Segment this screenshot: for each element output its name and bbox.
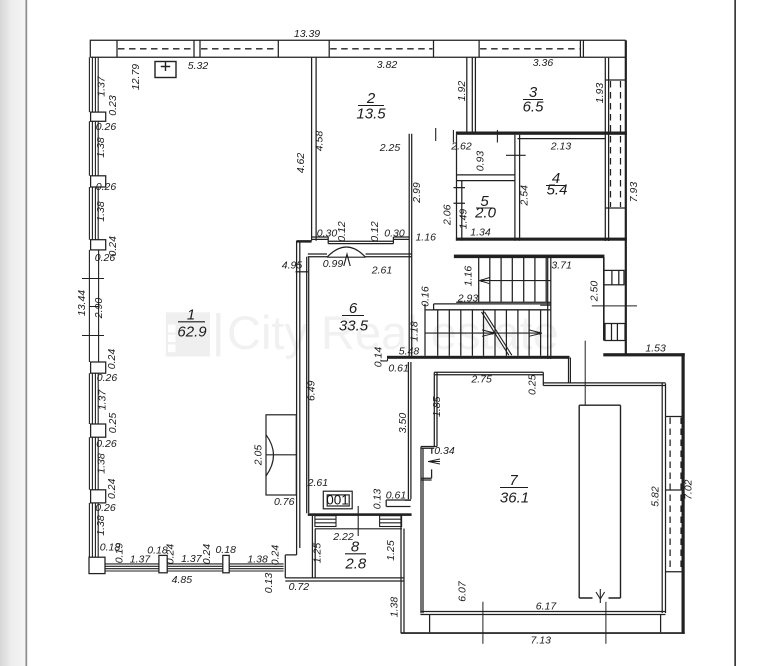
svg-text:6.17: 6.17 [536,601,558,613]
svg-text:6: 6 [349,300,358,317]
svg-text:1.38: 1.38 [95,201,107,222]
svg-text:0.26: 0.26 [95,252,116,264]
svg-text:3.50: 3.50 [397,413,409,434]
svg-text:2.62: 2.62 [450,141,472,153]
svg-text:1.16: 1.16 [463,266,475,287]
svg-text:0.12: 0.12 [369,221,381,242]
svg-text:0.18: 0.18 [215,544,236,556]
svg-text:1.37: 1.37 [96,75,108,97]
svg-text:1.38: 1.38 [95,137,107,158]
svg-text:2.90: 2.90 [93,298,105,320]
svg-text:0.25: 0.25 [107,413,119,434]
svg-text:1: 1 [187,307,195,324]
svg-text:2.93: 2.93 [457,293,479,305]
svg-text:0.25: 0.25 [527,374,539,395]
svg-text:5.32: 5.32 [188,60,209,72]
svg-text:1.25: 1.25 [385,540,397,561]
svg-text:33.5: 33.5 [339,318,369,335]
svg-text:2.50: 2.50 [589,281,601,303]
svg-text:2.13: 2.13 [550,141,572,153]
svg-text:0.26: 0.26 [95,502,116,514]
svg-text:0.13: 0.13 [263,573,275,594]
svg-text:13.44: 13.44 [76,290,88,316]
svg-text:13.5: 13.5 [356,106,386,123]
svg-text:3.36: 3.36 [533,57,554,69]
svg-text:4.62: 4.62 [295,153,307,174]
svg-text:1.38: 1.38 [389,597,401,618]
svg-text:2.06: 2.06 [442,204,454,226]
svg-text:0.24: 0.24 [201,544,213,565]
svg-text:2.54: 2.54 [519,185,531,207]
svg-text:0.26: 0.26 [96,121,117,133]
svg-text:2.99: 2.99 [411,182,423,204]
svg-text:1.25: 1.25 [312,543,324,564]
svg-text:0.26: 0.26 [96,181,117,193]
svg-text:2.61: 2.61 [371,265,392,277]
svg-text:0.12: 0.12 [336,221,348,242]
svg-text:0.13: 0.13 [372,489,384,510]
svg-text:36.1: 36.1 [500,490,529,507]
svg-text:7.02: 7.02 [683,479,695,500]
svg-text:4.58: 4.58 [314,131,326,152]
svg-text:1.93: 1.93 [594,83,606,104]
svg-text:0.30: 0.30 [317,228,338,240]
svg-text:0.16: 0.16 [420,286,432,307]
svg-text:1.38: 1.38 [95,515,107,536]
svg-text:5.48: 5.48 [399,346,420,358]
svg-text:7: 7 [509,472,518,489]
svg-text:5.4: 5.4 [547,182,568,199]
svg-text:4.85: 4.85 [172,574,193,586]
svg-text:62.9: 62.9 [177,324,207,341]
svg-text:001: 001 [326,493,349,508]
svg-text:1.16: 1.16 [415,231,436,243]
svg-text:2.22: 2.22 [332,531,354,543]
svg-text:0.99: 0.99 [323,258,344,270]
svg-text:0.24: 0.24 [270,545,282,566]
svg-text:6.5: 6.5 [523,99,545,116]
svg-text:1.37: 1.37 [97,389,109,411]
svg-text:2.25: 2.25 [379,142,401,154]
svg-text:2: 2 [366,90,376,107]
svg-text:0.26: 0.26 [96,438,117,450]
svg-text:1.38: 1.38 [247,554,268,566]
svg-text:0.24: 0.24 [165,544,177,565]
svg-text:1.53: 1.53 [645,343,666,355]
svg-text:0.26: 0.26 [97,372,118,384]
svg-text:12.79: 12.79 [130,64,142,90]
svg-text:0.23: 0.23 [107,95,119,116]
svg-text:1.34: 1.34 [470,227,491,239]
svg-text:3.82: 3.82 [377,59,398,71]
svg-text:2.75: 2.75 [470,374,492,386]
svg-text:2.0: 2.0 [474,205,497,222]
svg-text:0.24: 0.24 [106,349,118,370]
svg-text:6.49: 6.49 [306,380,318,401]
svg-text:0.24: 0.24 [106,478,118,499]
svg-text:13.39: 13.39 [294,28,320,40]
svg-text:1.92: 1.92 [456,81,468,102]
svg-text:1.18: 1.18 [409,321,421,342]
svg-text:3.71: 3.71 [551,260,571,272]
svg-text:0.34: 0.34 [434,445,455,457]
svg-text:6.07: 6.07 [457,580,469,602]
svg-text:1.37: 1.37 [181,553,203,565]
svg-text:2.8: 2.8 [344,556,367,573]
svg-text:2.05: 2.05 [253,445,265,467]
svg-text:0.76: 0.76 [274,496,295,508]
svg-text:5.82: 5.82 [650,486,662,507]
svg-text:0.61: 0.61 [386,490,406,502]
svg-text:7.13: 7.13 [530,635,551,647]
svg-text:0.72: 0.72 [289,581,310,593]
svg-text:0.14: 0.14 [373,347,385,368]
svg-text:4.95: 4.95 [282,260,303,272]
svg-text:1.85: 1.85 [431,396,443,417]
svg-text:0.61: 0.61 [388,363,408,375]
svg-text:1.49: 1.49 [458,209,470,230]
svg-text:0.30: 0.30 [384,228,405,240]
svg-text:0.93: 0.93 [475,151,487,172]
svg-text:1.38: 1.38 [96,453,108,474]
svg-text:2.61: 2.61 [307,477,328,489]
svg-text:7.93: 7.93 [628,182,640,203]
svg-text:0.19: 0.19 [114,543,126,564]
